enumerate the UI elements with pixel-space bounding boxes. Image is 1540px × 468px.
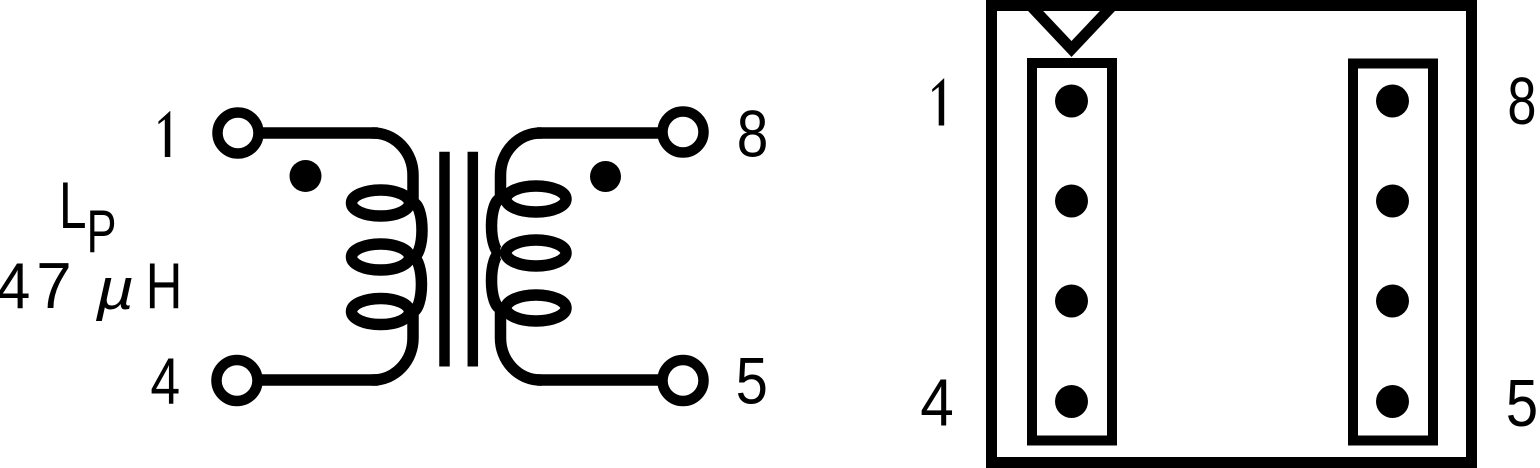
- svg-text:L: L: [59, 169, 87, 243]
- value label 47 uH: [0, 249, 182, 322]
- svg-text:8: 8: [1507, 64, 1536, 139]
- package pin 5 dot: [1376, 385, 1409, 418]
- terminal pin 1: [218, 113, 259, 154]
- svg-text:5: 5: [736, 345, 768, 418]
- package pin 4 dot: [1055, 385, 1088, 418]
- terminal pin 4: [217, 360, 258, 401]
- svg-text:µ: µ: [95, 257, 135, 322]
- svg-text:7: 7: [36, 249, 71, 322]
- terminal pin 8: [663, 112, 704, 153]
- phase dot primary: [290, 160, 322, 192]
- svg-text:8: 8: [737, 98, 769, 172]
- package pin 7 dot: [1376, 185, 1409, 218]
- svg-text:4: 4: [920, 365, 954, 441]
- svg-text:4: 4: [150, 345, 180, 419]
- svg-text:H: H: [146, 250, 183, 322]
- package pin 8 dot: [1376, 85, 1409, 118]
- wire pin4 to primary: [261, 374, 378, 386]
- pin label 1: [158, 111, 170, 157]
- left pin row box: [1032, 63, 1112, 441]
- package outline (top view): [992, 6, 1472, 463]
- wire pin1 to primary: [262, 127, 378, 139]
- right pin row box: [1353, 64, 1433, 441]
- svg-text:P: P: [87, 199, 117, 266]
- wire secondary to pin5: [537, 374, 659, 386]
- svg-text:5: 5: [1506, 366, 1538, 441]
- secondary winding: [492, 133, 567, 380]
- package pin 1 dot: [1055, 85, 1088, 118]
- terminal pin 5: [663, 360, 704, 401]
- svg-text:4: 4: [0, 250, 30, 322]
- primary winding Lp: [352, 133, 423, 380]
- package pin 3 dot: [1055, 285, 1088, 318]
- core: [445, 152, 473, 367]
- package pin 2 dot: [1055, 185, 1088, 218]
- pin1 index notch: [1029, 4, 1114, 49]
- label Lp: [59, 169, 117, 265]
- package pin 6 dot: [1376, 285, 1409, 318]
- wire secondary to pin8: [537, 127, 659, 139]
- package label 1: [932, 78, 944, 126]
- phase dot secondary: [590, 161, 621, 192]
